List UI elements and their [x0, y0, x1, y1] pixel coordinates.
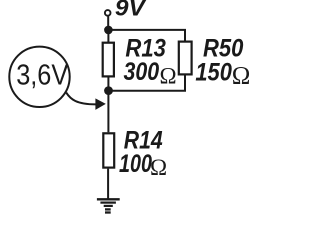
junction: top node	[104, 26, 113, 35]
wire: R14 to ground	[107, 169, 109, 199]
svg-text:Ω: Ω	[232, 63, 251, 90]
svg-text:3,6V: 3,6V	[16, 59, 69, 91]
wire: terminal to top node	[107, 16, 109, 30]
wire: R13 top lead	[107, 30, 109, 42]
node annotation 3,6V callout circle	[9, 47, 69, 107]
ground	[97, 199, 120, 212]
svg-text:300: 300	[124, 58, 160, 86]
wire: R13 bottom lead	[107, 77, 109, 90]
resistor R14	[103, 133, 114, 167]
wire: R50 bottom lead and bottom horizontal	[108, 75, 185, 90]
resistor R50	[179, 42, 192, 75]
svg-text:Ω: Ω	[150, 155, 167, 180]
arrow from 3,6V callout to node	[66, 93, 106, 110]
svg-text:100: 100	[119, 151, 152, 178]
label R14	[124, 127, 163, 154]
label 9V	[115, 0, 147, 20]
label R50	[203, 35, 243, 63]
junction: divider output node	[104, 86, 113, 95]
wire: top horizontal to R50 branch	[108, 30, 185, 41]
svg-text:Ω: Ω	[160, 63, 177, 88]
value label 150 ohm	[195, 59, 250, 90]
svg-text:9V: 9V	[115, 0, 147, 20]
supply terminal 9V	[105, 10, 111, 16]
svg-text:150: 150	[195, 59, 232, 87]
wire: node to R14	[107, 91, 109, 133]
value label 300 ohm	[124, 58, 177, 88]
value label 100 ohm	[119, 151, 167, 180]
resistor R13	[103, 43, 114, 77]
label R13	[125, 34, 165, 62]
